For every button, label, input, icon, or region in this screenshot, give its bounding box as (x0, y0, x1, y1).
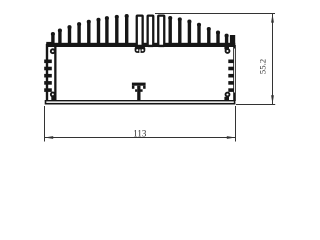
svg-text:55.2: 55.2 (257, 59, 267, 74)
svg-text:113: 113 (133, 128, 147, 138)
